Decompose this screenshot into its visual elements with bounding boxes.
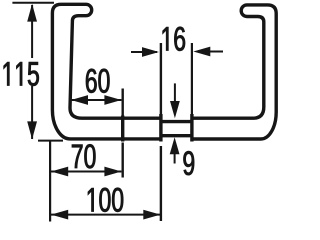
dim 100 arrow right	[143, 210, 160, 220]
dim 115 bottom tick	[38, 140, 63, 142]
dim 16 left arrowhead	[142, 47, 159, 57]
dim 16 left arrow line	[131, 51, 157, 53]
dim 100 arrow left	[51, 210, 68, 220]
right handle outline	[192, 5, 276, 139]
dim 60 arrow right	[104, 95, 121, 105]
label 70	[72, 144, 95, 168]
dim 9 down arrow line	[174, 83, 176, 103]
dim 9 up arrowhead	[170, 137, 180, 154]
dim 115 line upper	[31, 5, 33, 58]
spindle bottom edge	[160, 134, 193, 137]
divider D1 grip/neck edge + extension line	[121, 89, 123, 116]
label 16	[163, 27, 185, 51]
dim 70 arrow right	[104, 167, 121, 177]
dim 16 right arrow line	[209, 51, 223, 53]
label 60	[86, 69, 109, 93]
dim 60 line	[71, 99, 121, 101]
dim 115 top extension line	[12, 2, 54, 4]
dim 70 arrow left	[51, 167, 68, 177]
divider D2 block right edge + 16/100 extension line	[160, 43, 162, 115]
dim 115 arrow down	[27, 121, 37, 139]
left vertical extension line x50	[49, 141, 51, 222]
dim 16 right arrowhead	[193, 47, 210, 57]
dim 70 line	[51, 171, 121, 173]
label 100	[88, 188, 123, 212]
spindle top edge	[160, 120, 193, 123]
label 115	[4, 62, 39, 86]
dim 9 down arrowhead	[170, 101, 180, 118]
dim 115 arrow up	[27, 4, 37, 22]
dim 60 arrow left	[71, 95, 88, 105]
left handle outline	[52, 4, 161, 139]
dim 9 up arrow line	[174, 153, 176, 164]
divider D3 right block edge + extension line	[191, 43, 193, 115]
dim 115 line lower	[31, 86, 33, 139]
dim 100 line	[51, 214, 161, 216]
label 9	[183, 151, 194, 175]
